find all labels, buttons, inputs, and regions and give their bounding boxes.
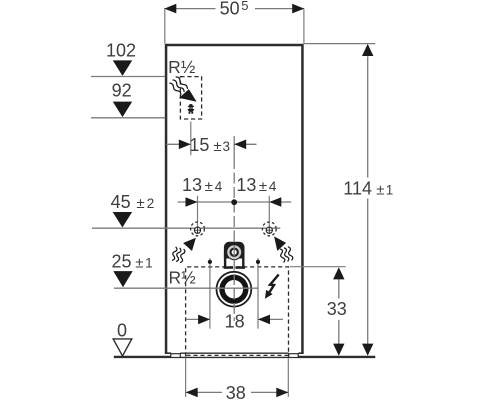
svg-text:33: 33	[327, 299, 347, 319]
svg-text:±: ±	[213, 138, 221, 155]
svg-text:114: 114	[343, 179, 372, 199]
svg-text:±: ±	[135, 255, 143, 272]
svg-text:1: 1	[145, 256, 153, 271]
svg-text:4: 4	[215, 179, 223, 194]
svg-text:38: 38	[226, 383, 246, 400]
svg-text:1: 1	[386, 183, 394, 198]
svg-text:50: 50	[220, 0, 240, 19]
svg-text:45: 45	[111, 192, 131, 212]
svg-text:25: 25	[112, 252, 132, 272]
svg-text:5: 5	[241, 0, 248, 13]
svg-text:R½: R½	[169, 267, 197, 287]
svg-text:±: ±	[136, 195, 144, 212]
svg-text:13: 13	[182, 175, 202, 195]
svg-text:±: ±	[376, 182, 384, 199]
svg-text:0: 0	[117, 321, 127, 341]
svg-text:2: 2	[147, 196, 155, 211]
svg-text:3: 3	[223, 139, 231, 154]
svg-text:±: ±	[259, 178, 267, 195]
svg-text:102: 102	[106, 40, 136, 60]
svg-text:92: 92	[112, 81, 132, 101]
svg-text:4: 4	[269, 179, 277, 194]
svg-text:13: 13	[236, 175, 256, 195]
svg-text:18: 18	[225, 311, 245, 331]
svg-text:±: ±	[205, 178, 213, 195]
svg-text:15: 15	[189, 135, 209, 155]
svg-text:R½: R½	[168, 57, 196, 77]
